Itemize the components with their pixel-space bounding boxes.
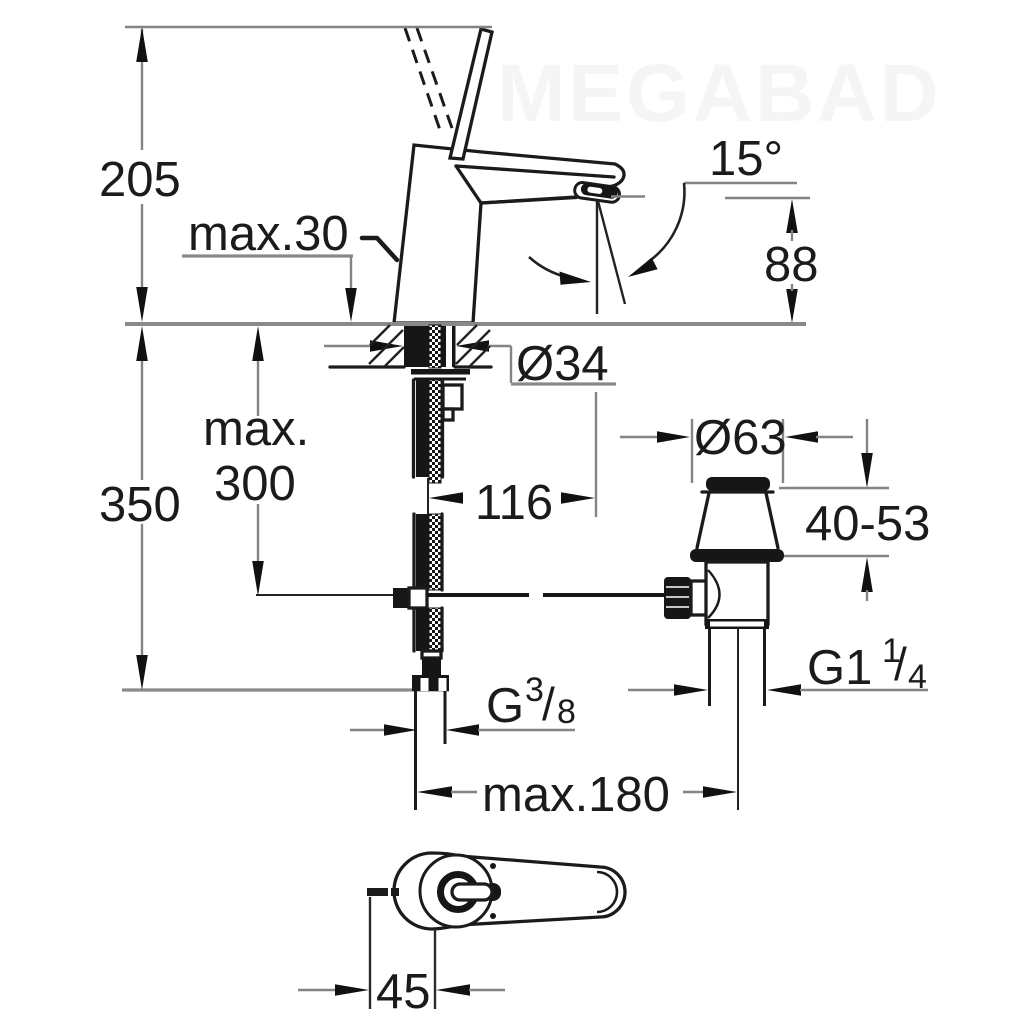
top reference line	[125, 26, 492, 28]
pop-up waste: flange O-ring	[690, 549, 784, 562]
spout outlet (aerator)	[574, 182, 621, 204]
svg-text:G1: G1	[807, 641, 872, 695]
faucet body outline	[394, 145, 624, 323]
dimension Ø63	[620, 411, 853, 483]
dimension 205	[99, 27, 181, 322]
faucet shank through deck	[404, 325, 456, 368]
svg-text:116: 116	[475, 476, 553, 530]
svg-text:15°: 15°	[709, 132, 783, 186]
svg-text:8: 8	[557, 693, 576, 731]
svg-text:MEGABAD: MEGABAD	[497, 48, 942, 139]
dimension 88	[725, 198, 819, 323]
svg-text:max.: max.	[203, 402, 309, 456]
pop-up rod	[256, 594, 664, 596]
pop-up waste: neck	[697, 492, 778, 548]
pop-up waste: body	[705, 562, 769, 629]
svg-text:max.180: max.180	[482, 768, 670, 822]
top view: left inlet stub	[367, 888, 399, 896]
braided hose below clamp	[414, 608, 442, 651]
svg-text:4: 4	[908, 658, 927, 696]
pop-up rod clamp on hose	[393, 588, 427, 608]
lever alternate position (dashed)	[405, 28, 453, 133]
svg-text:300: 300	[214, 457, 296, 511]
spout tilted 15 deg line	[598, 201, 625, 304]
svg-text:/: /	[894, 638, 907, 690]
G3/8 nut	[412, 675, 449, 691]
svg-text:Ø63: Ø63	[694, 411, 787, 465]
max.30 hook on body	[362, 238, 397, 260]
deck (counter) line	[125, 322, 806, 326]
top view: stub handle	[452, 883, 501, 901]
top view: cartridge circle	[420, 855, 492, 927]
dimension G3/8	[350, 671, 576, 736]
braided hose lower section	[414, 514, 442, 590]
svg-text:G: G	[486, 679, 524, 733]
hose-end reference line	[122, 688, 449, 691]
waste centerline	[737, 629, 739, 810]
rod-to-waste connector	[691, 581, 708, 615]
swivel arc left with arrow	[529, 257, 591, 285]
dimension 116	[428, 392, 596, 530]
braided hose upper section	[414, 380, 443, 483]
dimension G1 1/4	[628, 632, 928, 696]
svg-text:/: /	[542, 678, 555, 730]
outlet level stub line	[611, 195, 645, 197]
connection tails below nut	[414, 691, 417, 810]
svg-text:max.30: max.30	[188, 207, 349, 261]
dimension max.180	[417, 768, 737, 822]
waste tailpipe	[708, 629, 711, 706]
label 15 degrees	[684, 132, 797, 186]
lever (solid)	[450, 29, 492, 159]
spout plumb line	[596, 201, 598, 314]
top view: thick ring	[441, 875, 476, 910]
hose side fitting	[443, 385, 462, 420]
svg-text:88: 88	[764, 238, 819, 292]
dimension 45	[298, 897, 505, 1019]
deck cross-section left hatch	[330, 325, 404, 367]
dimension 40-53	[779, 419, 930, 601]
dimension Ø34	[324, 337, 616, 391]
top view: lever body outline	[394, 853, 625, 929]
label max.30	[182, 207, 357, 322]
hose end collar	[422, 651, 441, 658]
svg-text:Ø34: Ø34	[516, 337, 609, 391]
svg-text:350: 350	[99, 478, 181, 532]
dimension 350	[99, 326, 181, 690]
svg-text:45: 45	[376, 965, 431, 1019]
deck cross-section right hatch	[455, 325, 491, 367]
hose end thread	[422, 658, 441, 675]
svg-text:40-53: 40-53	[805, 497, 930, 551]
dimension max.300	[203, 326, 309, 596]
top view: screw dots	[490, 863, 496, 869]
rod knurled knob	[664, 577, 691, 619]
pop-up waste: plug cap	[706, 477, 770, 491]
svg-text:205: 205	[99, 153, 181, 207]
swivel arc right with arrow	[628, 183, 684, 277]
mounting washer under deck	[411, 369, 470, 379]
top view: inner cap arc of lever end	[597, 872, 617, 912]
